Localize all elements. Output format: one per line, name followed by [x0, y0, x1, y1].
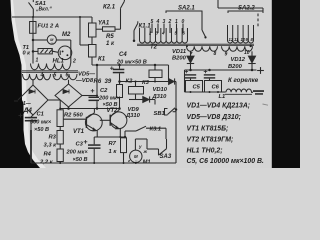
- svg-text:R2 560: R2 560: [64, 112, 83, 118]
- svg-text:VD9: VD9: [128, 107, 140, 113]
- svg-text:К горелке: К горелке: [228, 77, 259, 84]
- svg-text:М2: М2: [62, 32, 71, 38]
- svg-text:9: 9: [225, 51, 228, 57]
- svg-text:4: 4: [40, 73, 44, 79]
- svg-text:К3: К3: [142, 80, 150, 86]
- svg-text:В200: В200: [172, 55, 187, 61]
- svg-text:R4: R4: [44, 152, 52, 158]
- svg-text:К3.1: К3.1: [150, 127, 162, 133]
- svg-text:8: 8: [214, 51, 217, 57]
- svg-text:R3: R3: [49, 135, 57, 141]
- svg-text:В200: В200: [228, 64, 243, 70]
- svg-text:20 мк×50 В: 20 мк×50 В: [116, 59, 147, 65]
- svg-text:0 к: 0 к: [23, 51, 32, 57]
- svg-text:6: 6: [66, 73, 69, 79]
- svg-text:3: 3: [163, 19, 166, 25]
- svg-text:10: 10: [244, 50, 250, 56]
- svg-text:VD10: VD10: [153, 87, 168, 93]
- svg-text:С6: С6: [212, 85, 220, 91]
- svg-text:К2.1: К2.1: [103, 5, 116, 11]
- svg-text:С4: С4: [119, 52, 127, 58]
- svg-text:ж: ж: [143, 149, 148, 154]
- svg-text:200 мк×: 200 мк×: [66, 149, 89, 155]
- svg-text:1 к: 1 к: [109, 149, 118, 155]
- svg-text:VD5—VD8 Д310;: VD5—VD8 Д310;: [187, 114, 241, 121]
- svg-text:4: 4: [156, 19, 160, 25]
- svg-text:R7: R7: [109, 141, 117, 147]
- svg-text:VT1 КТ815Б;: VT1 КТ815Б;: [187, 126, 229, 133]
- svg-text:YA1: YA1: [98, 21, 110, 27]
- svg-text:∼: ∼: [50, 41, 53, 45]
- svg-text:2: 2: [72, 59, 76, 65]
- svg-text:К1: К1: [98, 57, 106, 63]
- svg-text:С2: С2: [100, 88, 108, 94]
- svg-text:11: 11: [234, 37, 239, 42]
- svg-text:HL1 ТН0,2;: HL1 ТН0,2;: [187, 148, 223, 155]
- svg-text:1: 1: [175, 19, 178, 25]
- svg-text:К2: К2: [126, 79, 134, 85]
- svg-text:39: 39: [105, 79, 112, 85]
- svg-text:С1: С1: [37, 111, 44, 117]
- svg-text:2: 2: [168, 19, 172, 25]
- svg-text:VT2 КТ819ГМ;: VT2 КТ819ГМ;: [187, 137, 234, 144]
- svg-text:500 мк×: 500 мк×: [30, 120, 52, 126]
- svg-text:3,3 к: 3,3 к: [44, 143, 58, 149]
- svg-text:VD1—VD4 КД213А;: VD1—VD4 КД213А;: [187, 103, 251, 110]
- svg-text:VD12: VD12: [231, 57, 246, 63]
- svg-text:VT2: VT2: [107, 108, 119, 114]
- svg-text:200 мк×: 200 мк×: [98, 95, 121, 101]
- svg-text:SA3: SA3: [160, 154, 172, 160]
- svg-text:FU1 2 А: FU1 2 А: [38, 24, 60, 30]
- svg-text:—VD8: —VD8: [75, 78, 94, 84]
- svg-text:VD11: VD11: [172, 49, 186, 55]
- svg-text:SB1: SB1: [154, 111, 165, 117]
- svg-text:R6: R6: [94, 79, 102, 85]
- svg-text:5: 5: [54, 73, 57, 79]
- svg-text:„Вкл.“: „Вкл.“: [35, 6, 52, 12]
- svg-text:5: 5: [151, 19, 154, 25]
- svg-text:С3: С3: [76, 141, 84, 147]
- svg-text:×50 В: ×50 В: [34, 127, 49, 133]
- svg-text:×50 В: ×50 В: [73, 157, 88, 163]
- svg-text:у: у: [138, 144, 142, 149]
- svg-text:VT1: VT1: [73, 129, 85, 135]
- svg-text:0: 0: [182, 19, 185, 25]
- svg-text:1 к: 1 к: [106, 41, 115, 47]
- svg-text:R5: R5: [106, 34, 114, 40]
- svg-text:VD5—: VD5—: [78, 72, 95, 78]
- svg-text:Д310: Д310: [125, 113, 141, 119]
- svg-text:1: 1: [36, 58, 39, 64]
- svg-text:С5: С5: [193, 85, 201, 91]
- svg-text:С5, С6 10000 мк×100 В.: С5, С6 10000 мк×100 В.: [187, 158, 264, 165]
- svg-text:L1: L1: [219, 94, 226, 100]
- svg-text:Д4: Д4: [23, 107, 33, 114]
- svg-text:Д310: Д310: [152, 94, 168, 100]
